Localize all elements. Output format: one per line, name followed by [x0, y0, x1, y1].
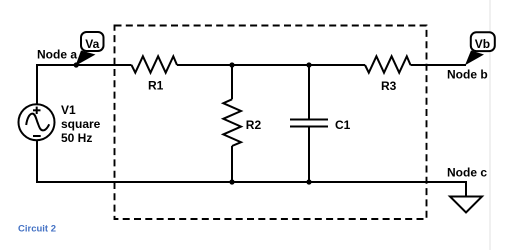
svg-text:V1: V1 — [61, 103, 76, 117]
svg-text:C1: C1 — [335, 118, 351, 132]
svg-text:Node c: Node c — [447, 165, 487, 179]
svg-text:R3: R3 — [381, 79, 397, 93]
svg-text:Node b: Node b — [447, 67, 488, 81]
svg-text:R2: R2 — [246, 118, 262, 132]
svg-text:Vb: Vb — [475, 37, 490, 51]
svg-text:50 Hz: 50 Hz — [61, 131, 92, 145]
svg-text:square: square — [61, 117, 101, 131]
svg-text:Va: Va — [85, 37, 99, 51]
svg-text:Node a: Node a — [37, 48, 77, 62]
svg-text:Circuit 2: Circuit 2 — [18, 224, 56, 235]
svg-text:R1: R1 — [148, 78, 164, 92]
